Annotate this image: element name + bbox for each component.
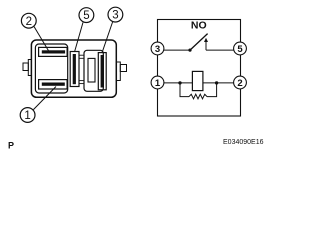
terminal 2 (234, 76, 247, 89)
resistor R (189, 94, 207, 99)
svg-text:2: 2 (26, 16, 32, 28)
terminal 5 blade (70, 52, 79, 87)
node right junction (215, 81, 218, 84)
callout 3 (108, 7, 123, 22)
wire 3 to switch (158, 49, 191, 51)
wire switch to 5 (206, 49, 240, 51)
terminal 2 slot opening (42, 50, 65, 53)
connector box (158, 20, 241, 117)
right cover cap (84, 50, 103, 91)
resistor branch wire right (207, 83, 217, 97)
node left junction (178, 81, 181, 84)
relay body (31, 40, 116, 97)
terminal 5 (234, 42, 247, 55)
svg-text:1: 1 (24, 110, 30, 122)
terminal 3 blade opening (101, 55, 104, 88)
callout 1 (20, 108, 35, 123)
callout 1 leader (33, 87, 56, 110)
terminal 1 slot (39, 80, 68, 89)
switch blade (190, 34, 208, 51)
svg-text:3: 3 (112, 10, 118, 22)
callout 2 (21, 13, 36, 28)
svg-text:NO: NO (191, 19, 207, 31)
terminal 3 (151, 42, 164, 55)
switch actuation arrow (205, 41, 207, 50)
terminal 2 slot (39, 47, 68, 56)
svg-text:3: 3 (155, 44, 160, 55)
callout 3 leader (102, 22, 113, 53)
svg-text:P: P (8, 140, 14, 150)
terminal 5 blade opening (73, 54, 76, 84)
svg-text:E034090E16: E034090E16 (223, 139, 264, 146)
callout 2 leader (34, 27, 49, 51)
wire 1 to coil (158, 82, 193, 84)
left cover cap (35, 44, 67, 93)
svg-text:5: 5 (237, 44, 243, 55)
right mounting tab (116, 62, 126, 81)
resistor branch wire (180, 83, 189, 97)
svg-text:5: 5 (83, 10, 89, 22)
relay coil (192, 71, 203, 90)
svg-text:1: 1 (155, 78, 161, 89)
left mounting tab (23, 60, 31, 76)
callout 5 (79, 8, 94, 23)
terminal 1 (151, 76, 164, 89)
terminal 1 slot opening (42, 83, 65, 86)
callout 5 leader (75, 22, 84, 52)
base web lines (79, 55, 84, 83)
inner window (88, 58, 95, 82)
terminal 3 blade (98, 53, 106, 90)
switch pivot junction (188, 49, 191, 52)
svg-text:2: 2 (237, 78, 242, 89)
wire coil to 2 (203, 82, 240, 84)
